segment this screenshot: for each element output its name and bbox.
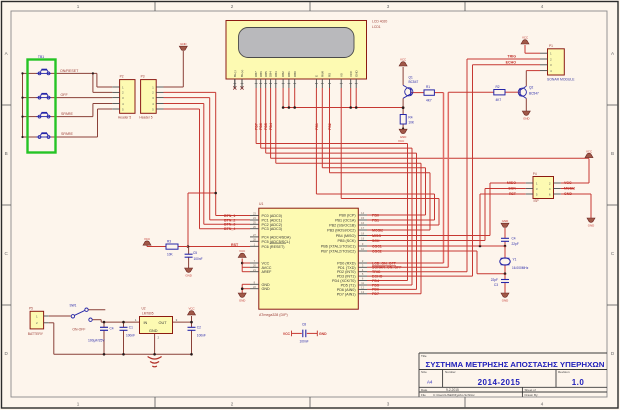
svg-text:Header 5: Header 5 (118, 115, 131, 119)
svg-text:22pF: 22pF (491, 278, 498, 282)
svg-text:PB4 (MISO): PB4 (MISO) (336, 234, 356, 238)
svg-text:PD1 (TXD): PD1 (TXD) (338, 266, 356, 270)
svg-text:ECHO: ECHO (372, 274, 383, 278)
svg-text:PB6 (XTAL1/TOSC1): PB6 (XTAL1/TOSC1) (321, 245, 356, 249)
svg-text:Date: Date (421, 388, 428, 392)
svg-text:2: 2 (231, 4, 234, 9)
svg-text:VCC: VCC (586, 149, 592, 153)
svg-text:OSC2: OSC2 (372, 249, 382, 253)
svg-text:OUT: OUT (159, 321, 168, 325)
svg-text:PB0: PB0 (372, 213, 379, 217)
svg-text:ISP: ISP (534, 199, 539, 203)
svg-text:B: B (5, 151, 8, 156)
svg-text:Number: Number (445, 370, 456, 374)
svg-text:2: 2 (231, 402, 234, 407)
svg-text:VCC: VCC (283, 332, 291, 336)
svg-text:DB3: DB3 (274, 71, 278, 77)
svg-text:DB0: DB0 (293, 71, 297, 77)
svg-text:100nF: 100nF (126, 333, 135, 337)
svg-text:100nF: 100nF (300, 339, 309, 343)
svg-text:3: 3 (387, 4, 390, 9)
svg-text:SONAR MODULE: SONAR MODULE (547, 77, 575, 81)
svg-text:PC3 (ADC3): PC3 (ADC3) (262, 227, 283, 231)
svg-text:GND: GND (262, 287, 271, 291)
svg-text:OSC1: OSC1 (372, 244, 382, 248)
svg-text:Size: Size (421, 370, 427, 374)
svg-text:R/W: R/W (320, 71, 324, 77)
svg-text:RST: RST (231, 243, 239, 247)
svg-text:ATmega328 (DIP): ATmega328 (DIP) (259, 313, 288, 317)
svg-text:PD5: PD5 (264, 123, 268, 130)
svg-text:PD7 (AIN1): PD7 (AIN1) (337, 292, 356, 296)
svg-text:DB1: DB1 (287, 71, 291, 77)
svg-text:GND: GND (564, 192, 572, 196)
svg-text:PC6 (RESET): PC6 (RESET) (262, 245, 285, 249)
svg-text:BTN_1: BTN_1 (224, 214, 235, 218)
svg-text:22pF: 22pF (512, 242, 519, 246)
svg-text:VCC: VCC (239, 249, 245, 253)
svg-text:4: 4 (541, 4, 544, 9)
svg-text:VCC: VCC (400, 58, 406, 62)
svg-text:AVCC: AVCC (262, 266, 272, 270)
svg-text:10K: 10K (408, 121, 415, 125)
svg-text:BC547: BC547 (529, 92, 539, 96)
svg-text:GND: GND (185, 274, 191, 278)
svg-text:E: E (315, 75, 319, 77)
svg-text:2014-2015: 2014-2015 (478, 378, 521, 387)
svg-text:SPARE: SPARE (61, 132, 74, 136)
svg-text:4K7: 4K7 (426, 99, 432, 103)
svg-text:IN: IN (144, 321, 148, 325)
svg-text:BTN_4: BTN_4 (224, 227, 235, 231)
svg-text:BC547: BC547 (409, 80, 419, 84)
svg-text:SCK: SCK (372, 239, 380, 243)
svg-text:C1: C1 (129, 326, 133, 330)
svg-text:File: File (421, 393, 426, 397)
svg-text:C3: C3 (494, 283, 498, 287)
svg-text:PB5 (SCK): PB5 (SCK) (338, 239, 356, 243)
svg-text:PD5 (T1): PD5 (T1) (341, 284, 356, 288)
svg-text:PC4 (ADC4/SDA): PC4 (ADC4/SDA) (262, 235, 291, 239)
svg-text:3: 3 (387, 402, 390, 407)
svg-text:100nF: 100nF (197, 333, 206, 337)
svg-text:PB7 (XTAL2/TOSC2): PB7 (XTAL2/TOSC2) (321, 250, 356, 254)
svg-text:U1: U1 (259, 202, 263, 206)
svg-text:PB1 (OC1A): PB1 (OC1A) (335, 219, 356, 223)
svg-text:PC0 (ADC0): PC0 (ADC0) (262, 214, 283, 218)
svg-text:PD3 (INT1): PD3 (INT1) (337, 275, 356, 279)
svg-text:ON/RESET: ON/RESET (60, 69, 79, 73)
svg-text:MISO: MISO (372, 234, 381, 238)
svg-text:GND: GND (319, 332, 327, 336)
svg-text:GND: GND (239, 299, 245, 303)
svg-text:BATTERY: BATTERY (28, 332, 44, 336)
svg-text:C4: C4 (110, 326, 114, 330)
svg-text:PB3 (MOSI/OC2): PB3 (MOSI/OC2) (327, 229, 355, 233)
svg-text:C5: C5 (193, 251, 197, 255)
svg-text:Header 5: Header 5 (139, 115, 152, 119)
svg-text:GND: GND (502, 219, 508, 223)
svg-text:1: 1 (77, 4, 80, 9)
svg-text:SW1: SW1 (70, 304, 77, 308)
svg-text:MOSI2: MOSI2 (564, 187, 575, 191)
svg-text:DB6: DB6 (259, 71, 263, 77)
svg-text:Revision: Revision (558, 370, 570, 374)
svg-text:GND: GND (354, 70, 358, 78)
svg-text:PB0 (ICP): PB0 (ICP) (339, 214, 356, 218)
svg-text:SCK: SCK (508, 187, 516, 191)
svg-text:B: B (611, 151, 614, 156)
svg-text:VCC: VCC (564, 181, 572, 185)
svg-text:Title: Title (421, 354, 427, 358)
svg-text:PD4 (XCK/T0): PD4 (XCK/T0) (332, 279, 356, 283)
svg-text:GND: GND (502, 299, 508, 303)
svg-text:TRIG: TRIG (507, 55, 516, 59)
svg-text:DB7: DB7 (254, 71, 258, 77)
svg-text:DB2: DB2 (281, 71, 285, 77)
svg-text:V0: V0 (339, 73, 343, 77)
svg-text:LCD1: LCD1 (372, 25, 381, 29)
svg-text:PB2 (SS/OC1B): PB2 (SS/OC1B) (329, 224, 355, 228)
svg-text:1: 1 (77, 402, 80, 407)
svg-text:PD4: PD4 (269, 123, 273, 130)
svg-text:C:\Users\USER\Σχέδιο.SchDoc: C:\Users\USER\Σχέδιο.SchDoc (433, 393, 475, 397)
svg-text:PD7: PD7 (372, 292, 379, 296)
svg-text:GND: GND (523, 117, 529, 121)
svg-text:R4: R4 (408, 116, 412, 120)
svg-text:P2: P2 (120, 75, 124, 79)
svg-text:AREF: AREF (262, 270, 273, 274)
svg-text:VCC: VCC (188, 307, 194, 311)
svg-text:RS: RS (328, 73, 332, 77)
svg-text:PD7: PD7 (255, 123, 259, 130)
svg-text:BL(-): BL(-) (233, 70, 237, 77)
svg-text:U2: U2 (142, 306, 146, 310)
svg-text:100nF: 100nF (194, 257, 203, 261)
svg-text:BTN_3: BTN_3 (224, 223, 235, 227)
svg-text:DB5: DB5 (264, 71, 268, 77)
svg-text:VCC: VCC (398, 139, 405, 143)
svg-text:VCC: VCC (349, 70, 353, 77)
svg-text:A4: A4 (427, 379, 433, 384)
svg-text:P4: P4 (533, 172, 537, 176)
svg-text:C4: C4 (512, 237, 516, 241)
svg-text:PC2 (ADC2): PC2 (ADC2) (262, 223, 283, 227)
svg-text:DB4: DB4 (269, 71, 273, 77)
svg-text:SPARE: SPARE (61, 112, 74, 116)
svg-text:GND: GND (149, 329, 158, 333)
svg-text:BL(+): BL(+) (240, 70, 244, 77)
svg-text:PB2: PB2 (328, 123, 332, 130)
svg-text:OFF: OFF (61, 93, 69, 97)
svg-text:Q1: Q1 (409, 75, 413, 79)
svg-text:Y1: Y1 (513, 258, 517, 262)
svg-text:GND: GND (400, 135, 406, 139)
svg-text:PD2 (INT0): PD2 (INT0) (337, 270, 356, 274)
svg-text:RST: RST (509, 192, 517, 196)
svg-text:MISO: MISO (507, 181, 516, 185)
svg-text:R3: R3 (167, 240, 171, 244)
svg-text:1.0: 1.0 (572, 378, 585, 387)
svg-text:VCC: VCC (522, 36, 528, 40)
svg-text:C2: C2 (197, 326, 201, 330)
svg-text:LM7805: LM7805 (142, 311, 154, 315)
svg-text:Sheet of: Sheet of (525, 388, 536, 392)
svg-text:16.000MHz: 16.000MHz (512, 266, 529, 270)
svg-text:10K: 10K (167, 252, 174, 256)
svg-text:TB1: TB1 (38, 55, 44, 59)
svg-text:ECHO: ECHO (506, 60, 517, 64)
svg-text:P1: P1 (549, 44, 553, 48)
svg-text:C8: C8 (302, 323, 306, 327)
svg-text:ΣΥΣΤΗΜΑ ΜΕΤΡΗΣΗΣ ΑΠΟΣΤΑΣΗΣ ΥΠΕ: ΣΥΣΤΗΜΑ ΜΕΤΡΗΣΗΣ ΑΠΟΣΤΑΣΗΣ ΥΠΕΡΗΧΩΝ (426, 360, 605, 369)
svg-text:P5: P5 (29, 307, 33, 311)
svg-text:4K7: 4K7 (496, 98, 502, 102)
svg-text:GND: GND (262, 283, 271, 287)
svg-text:Q2: Q2 (529, 85, 533, 89)
svg-text:R1: R1 (426, 85, 430, 89)
svg-text:ON-OFF: ON-OFF (72, 327, 85, 331)
svg-text:R2: R2 (496, 85, 500, 89)
svg-text:PD6: PD6 (372, 288, 379, 292)
svg-text:VCC: VCC (144, 237, 150, 241)
svg-text:PD5: PD5 (372, 283, 379, 287)
svg-text:PD6 (AIN0): PD6 (AIN0) (337, 288, 356, 292)
svg-text:100μF/25V: 100μF/25V (88, 338, 105, 342)
svg-text:GND: GND (588, 224, 594, 228)
svg-text:TRIG: TRIG (372, 270, 381, 274)
svg-text:MOSI2: MOSI2 (372, 228, 383, 232)
svg-text:PB1: PB1 (372, 218, 379, 222)
svg-text:LCD 4020: LCD 4020 (372, 20, 387, 24)
svg-text:GND: GND (180, 42, 186, 46)
svg-text:4: 4 (541, 402, 544, 407)
svg-text:PD6: PD6 (259, 123, 263, 130)
svg-text:PD4: PD4 (372, 279, 379, 283)
svg-text:9-2-2015: 9-2-2015 (446, 388, 459, 392)
svg-text:PB1: PB1 (315, 123, 319, 130)
svg-text:P3: P3 (141, 75, 145, 79)
svg-text:Drawn By:: Drawn By: (525, 393, 539, 397)
